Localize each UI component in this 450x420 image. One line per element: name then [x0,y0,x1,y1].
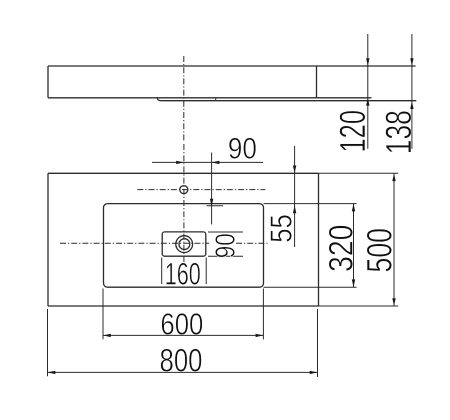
svg-text:320: 320 [322,225,360,273]
svg-text:90: 90 [210,233,241,258]
svg-text:600: 600 [160,306,203,341]
svg-text:138: 138 [378,110,419,154]
svg-text:120: 120 [332,110,373,153]
svg-text:500: 500 [359,228,399,273]
svg-text:90: 90 [228,133,257,166]
svg-text:55: 55 [264,214,298,243]
svg-text:160: 160 [165,256,201,292]
svg-text:800: 800 [160,342,203,378]
